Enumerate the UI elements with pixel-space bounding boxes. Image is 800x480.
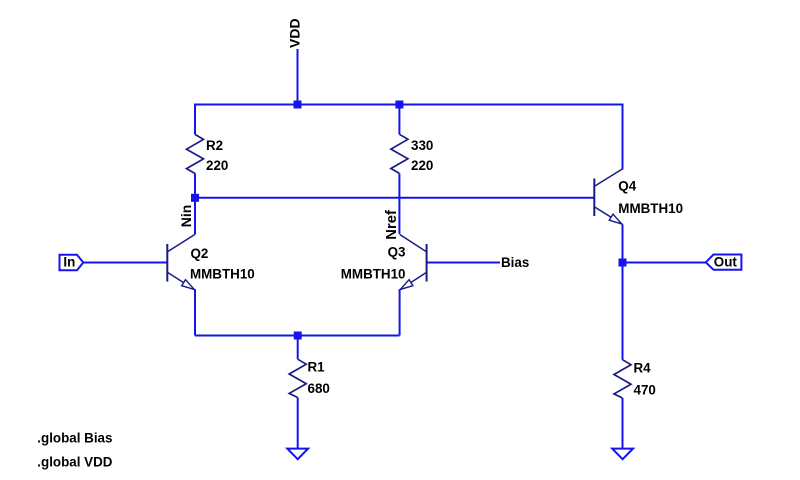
svg-text:MMBTH10: MMBTH10 [341,266,406,281]
svg-text:R4: R4 [634,360,652,375]
svg-text:R1: R1 [308,360,326,375]
svg-text:.global Bias: .global Bias [37,430,112,445]
svg-text:Q4: Q4 [618,178,636,193]
svg-text:Out: Out [714,255,738,270]
svg-text:220: 220 [411,158,433,173]
svg-text:220: 220 [206,158,228,173]
svg-text:VDD: VDD [287,18,303,48]
svg-text:.global VDD: .global VDD [37,455,112,470]
svg-text:R2: R2 [206,138,223,153]
svg-text:In: In [63,255,75,270]
svg-text:MMBTH10: MMBTH10 [190,267,255,282]
svg-text:Bias: Bias [501,255,529,270]
svg-text:470: 470 [634,382,656,397]
svg-text:Q3: Q3 [388,245,406,260]
svg-text:680: 680 [308,381,330,396]
svg-text:MMBTH10: MMBTH10 [618,201,683,216]
svg-text:330: 330 [411,138,433,153]
svg-text:Nin: Nin [178,205,194,228]
svg-text:Q2: Q2 [191,246,209,261]
svg-text:Nref: Nref [384,210,400,240]
